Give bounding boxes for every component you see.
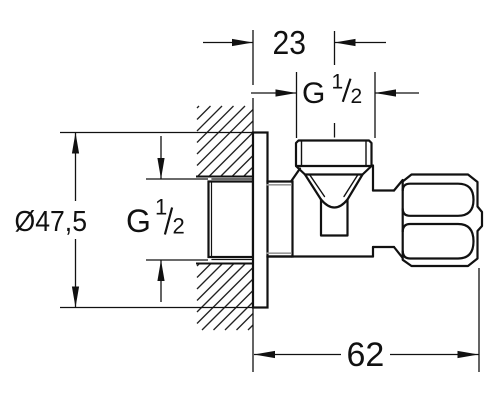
- svg-text:1: 1: [155, 195, 167, 220]
- svg-text:G: G: [126, 203, 151, 239]
- svg-text:1: 1: [332, 71, 344, 94]
- svg-text:2: 2: [351, 85, 363, 108]
- svg-text:G: G: [302, 77, 325, 110]
- svg-text:Ø47,5: Ø47,5: [15, 206, 88, 238]
- svg-text:2: 2: [173, 214, 185, 239]
- svg-text:62: 62: [347, 336, 385, 374]
- svg-text:23: 23: [273, 24, 307, 61]
